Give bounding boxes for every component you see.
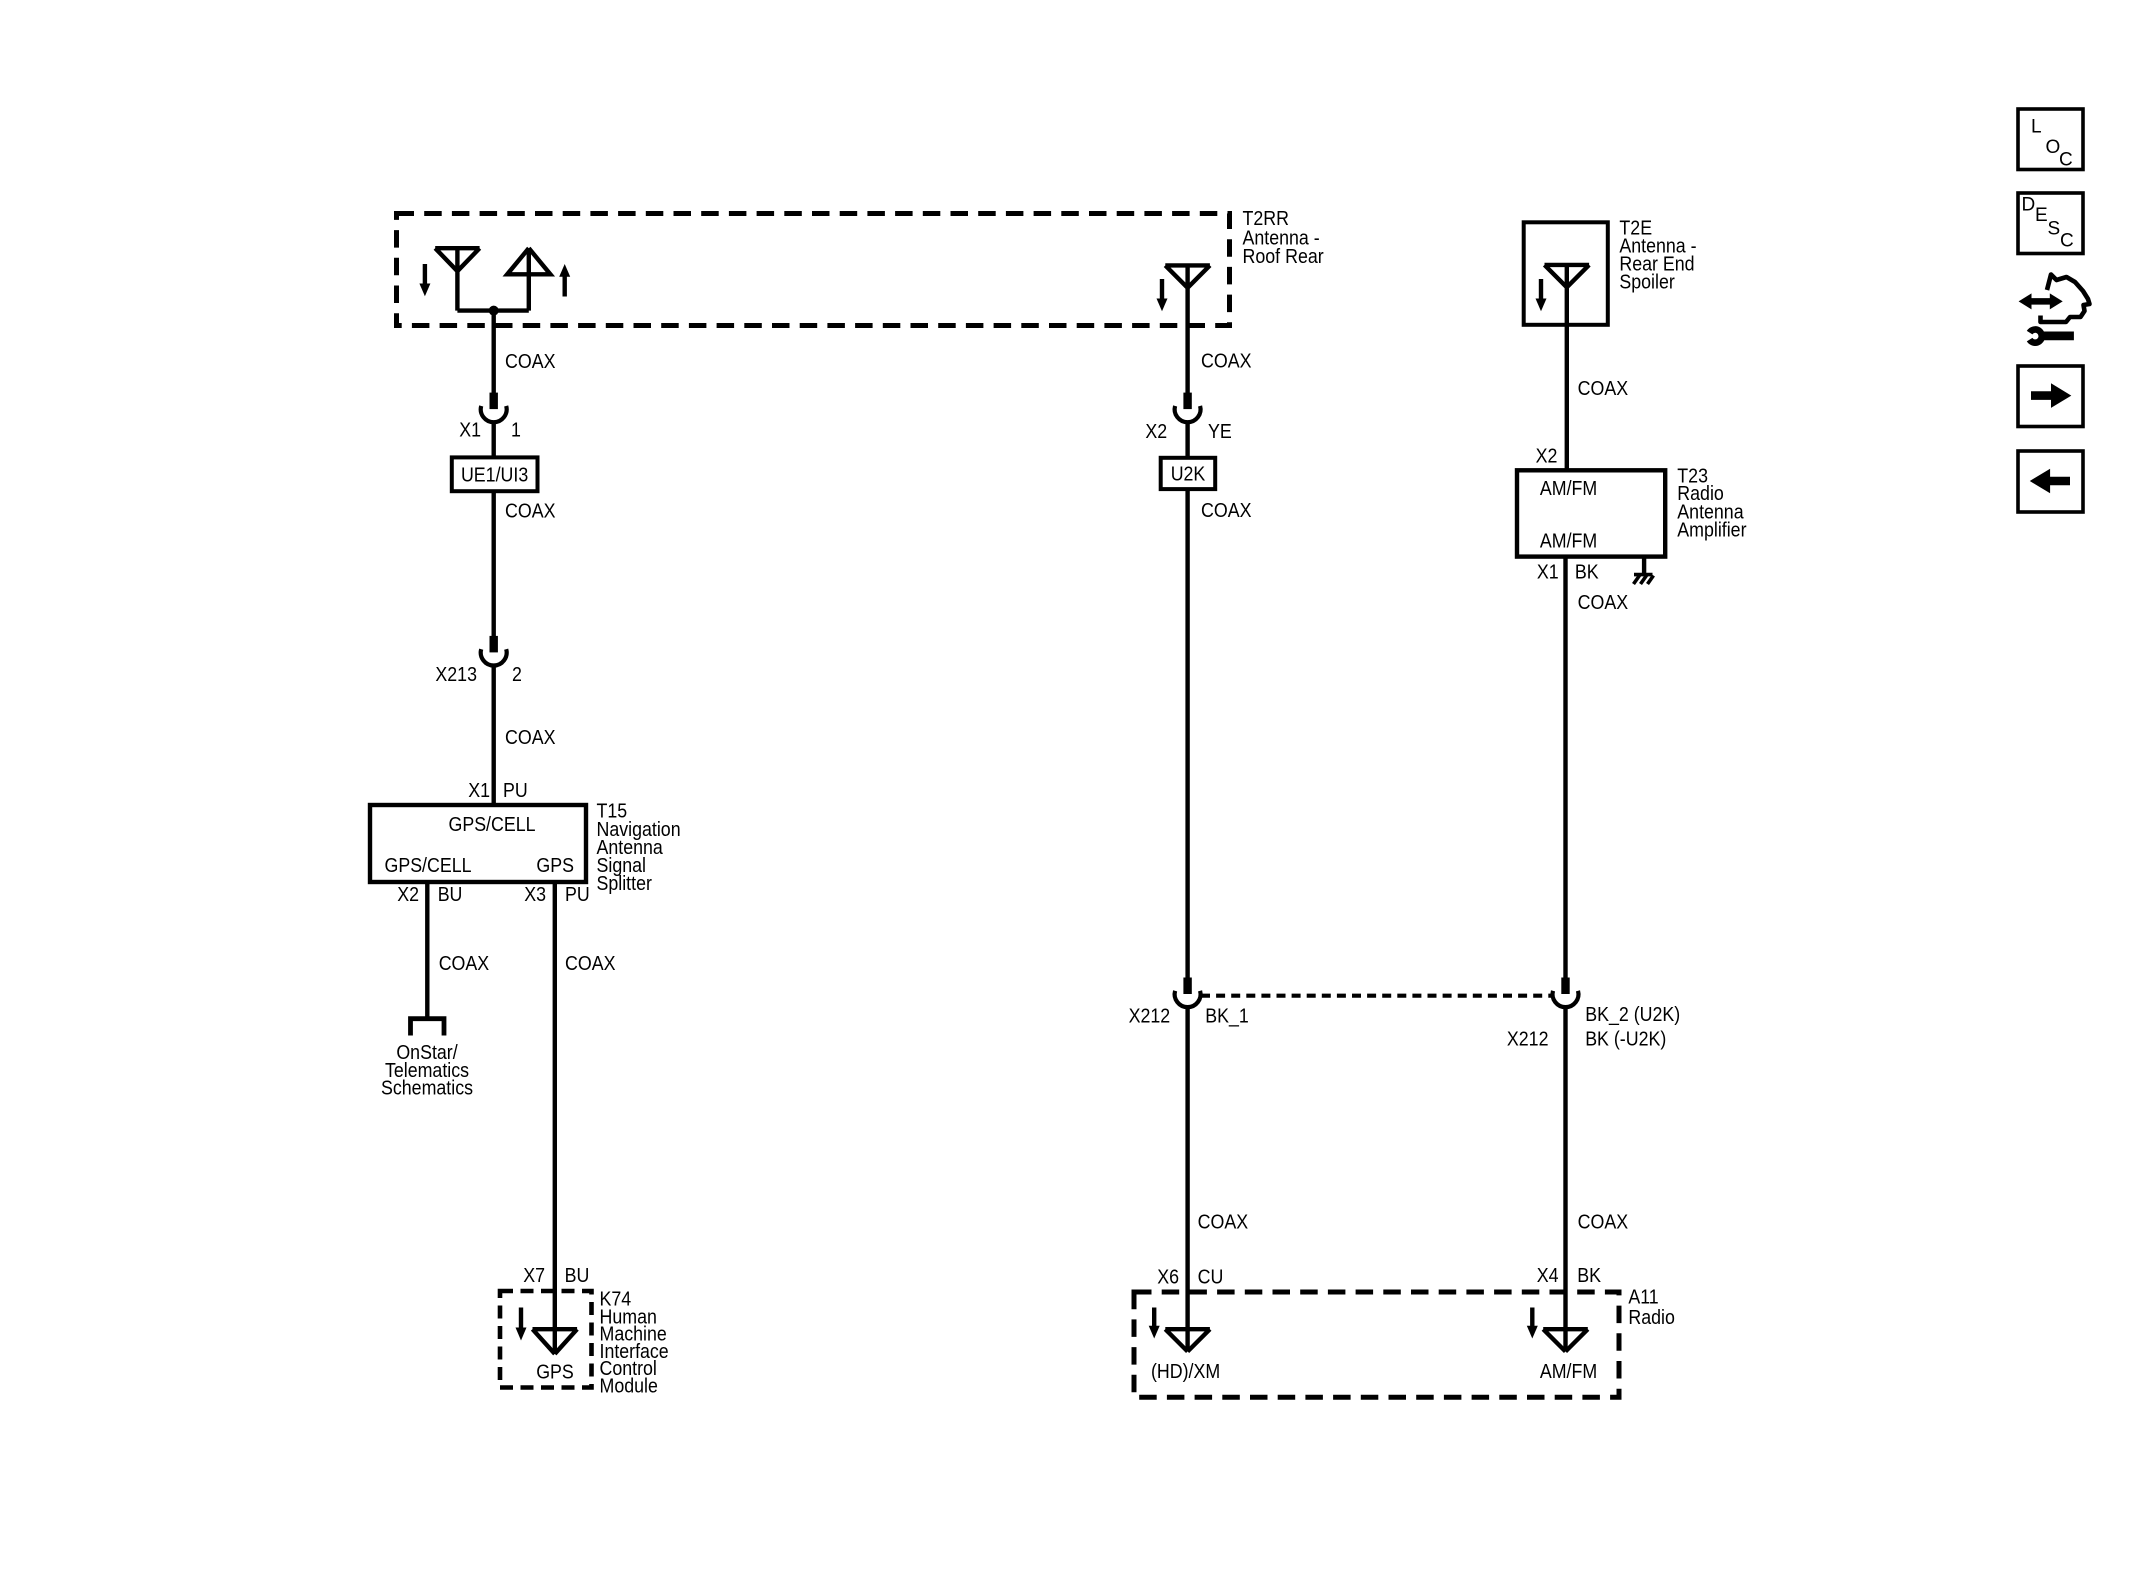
- svg-text:COAX: COAX: [1201, 351, 1252, 373]
- svg-text:Roof Rear: Roof Rear: [1243, 246, 1324, 268]
- svg-text:L: L: [2031, 117, 2042, 138]
- svg-text:COAX: COAX: [505, 351, 556, 373]
- connector X212 right (socket arc): [1553, 991, 1579, 1007]
- svg-text:Amplifier: Amplifier: [1677, 520, 1746, 542]
- wire: X212 down to A11 radio: [1185, 1006, 1189, 1351]
- svg-text:PU: PU: [503, 780, 528, 802]
- svg-text:COAX: COAX: [1578, 1212, 1629, 1234]
- svg-text:1: 1: [511, 420, 521, 442]
- svg-text:COAX: COAX: [565, 953, 616, 975]
- off-page connector to OnStar/Telematics: [411, 1019, 445, 1036]
- svg-text:X213: X213: [435, 664, 477, 686]
- svg-text:X2: X2: [397, 884, 419, 906]
- connector X212 left (socket arc): [1175, 991, 1201, 1007]
- connector X213 (terminal bar): [490, 636, 498, 653]
- wire: junction down to X1 connector: [492, 311, 496, 393]
- wire: X213 to T15 box: [492, 665, 496, 805]
- antenna T2E element: [1545, 265, 1590, 470]
- dashed box T2RR Antenna - Roof Rear: [397, 214, 1230, 326]
- svg-text:X1: X1: [468, 780, 490, 802]
- icon box forward arrow: [2018, 366, 2083, 427]
- arrow down at T2E antenna: [1539, 279, 1543, 301]
- arrow down inside A11 (left): [1152, 1308, 1156, 1329]
- svg-text:YE: YE: [1208, 421, 1232, 443]
- antenna AM/FM inside A11: [1543, 1329, 1588, 1351]
- icon data-exchange double arrow: [2030, 298, 2053, 305]
- component box T23 Radio Antenna Amplifier: [1517, 470, 1665, 556]
- svg-text:(HD)/XM: (HD)/XM: [1151, 1361, 1220, 1383]
- icon wrench: [2042, 332, 2074, 341]
- connector X2 (socket arc): [1175, 406, 1201, 422]
- svg-text:GPS/CELL: GPS/CELL: [449, 814, 536, 836]
- svg-text:Schematics: Schematics: [381, 1078, 473, 1100]
- antenna T2RR right element (transmit, up triangle): [507, 248, 550, 310]
- wire: T23 down to X212 right: [1563, 557, 1567, 978]
- svg-text:AM/FM: AM/FM: [1540, 1361, 1597, 1383]
- node junction dot: [489, 306, 499, 316]
- icon schematic outline (arrow loop): [2041, 275, 2090, 323]
- wire: UE1/UI3 down to X213: [492, 491, 496, 636]
- svg-text:X1: X1: [1537, 562, 1559, 584]
- dashed box A11 Radio: [1134, 1292, 1619, 1397]
- antenna (HD)/XM inside A11: [1165, 1329, 1210, 1351]
- wire: antenna elements joined: [457, 308, 528, 312]
- arrow up (transmit) inside T2RR box: [563, 275, 567, 297]
- connector X212 right (terminal bar): [1561, 978, 1569, 995]
- option box UE1/UI3: [452, 457, 538, 491]
- svg-text:S: S: [2048, 219, 2061, 240]
- svg-text:A11: A11: [1628, 1287, 1658, 1309]
- svg-text:X4: X4: [1537, 1265, 1559, 1287]
- connector X1 (terminal bar): [490, 393, 498, 410]
- arrow down inside K74: [519, 1308, 523, 1331]
- component box T2E Antenna - Rear End Spoiler: [1524, 222, 1608, 324]
- icon box DESC: [2018, 193, 2083, 254]
- connector X213 (socket arc): [481, 649, 507, 665]
- svg-text:2: 2: [512, 664, 522, 686]
- svg-text:PU: PU: [565, 884, 590, 906]
- ground G (T23) stem: [1642, 557, 1646, 575]
- antenna T2RR roof-rear element (in dashed box right end): [1165, 265, 1210, 393]
- dashed box K74 Human Machine Interface Control Module: [500, 1291, 592, 1388]
- option box U2K: [1161, 458, 1216, 489]
- svg-text:BK: BK: [1575, 562, 1599, 584]
- arrow down (receive) inside T2RR box: [423, 264, 427, 286]
- svg-text:BK_2 (U2K): BK_2 (U2K): [1585, 1004, 1680, 1026]
- svg-text:X212: X212: [1507, 1029, 1549, 1051]
- wire: U2K down to X212: [1185, 489, 1189, 978]
- svg-text:COAX: COAX: [1198, 1212, 1249, 1234]
- svg-text:AM/FM: AM/FM: [1540, 478, 1597, 500]
- arrow down at roof-rear antenna: [1160, 279, 1164, 301]
- svg-text:BU: BU: [565, 1265, 590, 1287]
- svg-text:X2: X2: [1536, 446, 1558, 468]
- svg-text:BK (-U2K): BK (-U2K): [1585, 1029, 1666, 1051]
- svg-text:COAX: COAX: [439, 953, 490, 975]
- svg-text:Splitter: Splitter: [597, 873, 653, 895]
- component box T15 Navigation Antenna Signal Splitter: [370, 805, 586, 882]
- svg-text:COAX: COAX: [1201, 500, 1252, 522]
- ground G (T23) bar and hatches: [1634, 575, 1654, 584]
- svg-text:Spoiler: Spoiler: [1619, 272, 1675, 294]
- dotted tie line between X212 halves: [1201, 994, 1552, 998]
- svg-text:GPS/CELL: GPS/CELL: [385, 855, 472, 877]
- icon box back arrow: [2018, 451, 2083, 512]
- svg-text:D: D: [2022, 195, 2036, 216]
- arrow down inside A11 (right): [1530, 1308, 1534, 1329]
- svg-text:X6: X6: [1157, 1267, 1179, 1289]
- svg-text:COAX: COAX: [1578, 378, 1629, 400]
- wire: X212 right down to A11 radio: [1563, 1006, 1567, 1351]
- connector X1 (socket arc): [481, 406, 507, 422]
- svg-text:GPS: GPS: [536, 855, 574, 877]
- svg-text:COAX: COAX: [505, 727, 556, 749]
- svg-text:CU: CU: [1198, 1267, 1224, 1289]
- svg-text:C: C: [2060, 231, 2074, 252]
- connector X2 (terminal bar): [1183, 393, 1191, 410]
- svg-text:X212: X212: [1129, 1006, 1171, 1028]
- svg-text:BK_1: BK_1: [1205, 1006, 1249, 1028]
- svg-text:BK: BK: [1577, 1265, 1601, 1287]
- svg-text:E: E: [2035, 205, 2048, 226]
- svg-text:COAX: COAX: [1578, 592, 1629, 614]
- antenna T2RR left element (GPS/receive): [435, 248, 479, 310]
- svg-text:U2K: U2K: [1171, 464, 1206, 486]
- svg-text:COAX: COAX: [505, 501, 556, 523]
- wire: T15 X2 down to off-page connector: [425, 882, 429, 1017]
- svg-text:X7: X7: [523, 1265, 545, 1287]
- svg-text:BU: BU: [438, 884, 463, 906]
- svg-text:Radio: Radio: [1628, 1307, 1675, 1329]
- svg-text:UE1/UI3: UE1/UI3: [461, 465, 528, 487]
- connector X212 left (terminal bar): [1183, 978, 1191, 995]
- wire: X1 arc to UE1/UI3 box: [492, 422, 496, 458]
- svg-text:X3: X3: [524, 884, 546, 906]
- wire: X2 arc to U2K box: [1185, 422, 1189, 458]
- svg-text:C: C: [2059, 150, 2073, 171]
- svg-text:X2: X2: [1145, 421, 1167, 443]
- svg-text:Module: Module: [600, 1375, 658, 1397]
- wire: T15 X3 down to K74 GPS antenna: [553, 882, 557, 1351]
- antenna GPS inside K74: [533, 1329, 578, 1354]
- svg-text:AM/FM: AM/FM: [1540, 530, 1597, 552]
- svg-text:X1: X1: [459, 420, 481, 442]
- icon box LOC: [2018, 109, 2083, 170]
- svg-text:GPS: GPS: [536, 1362, 574, 1384]
